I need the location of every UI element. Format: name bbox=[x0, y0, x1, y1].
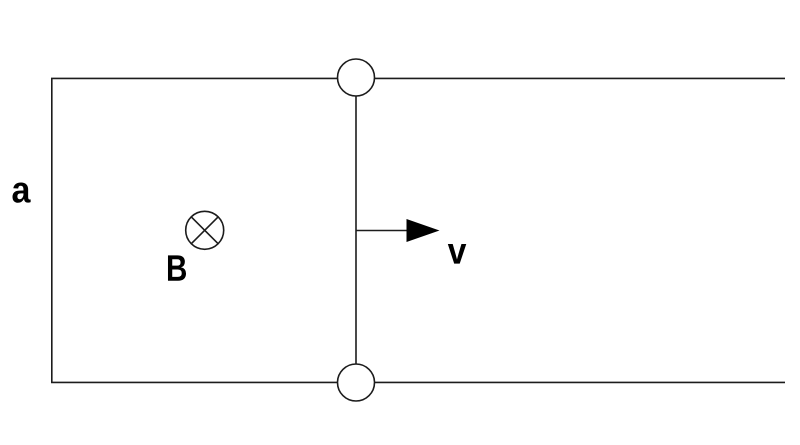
wire: sliding rod bbox=[355, 78, 357, 382]
wire: left side bbox=[51, 78, 53, 382]
node: top contact circle bbox=[338, 59, 375, 96]
B-field into page symbol bbox=[186, 211, 224, 249]
label v bbox=[448, 244, 466, 264]
wire: top rail bbox=[51, 77, 785, 79]
velocity arrow shaft bbox=[356, 230, 409, 232]
velocity arrow head bbox=[407, 219, 440, 242]
label a bbox=[12, 182, 30, 202]
node: bottom contact circle bbox=[338, 364, 375, 401]
label B bbox=[168, 255, 186, 280]
wire: bottom rail bbox=[51, 381, 785, 383]
